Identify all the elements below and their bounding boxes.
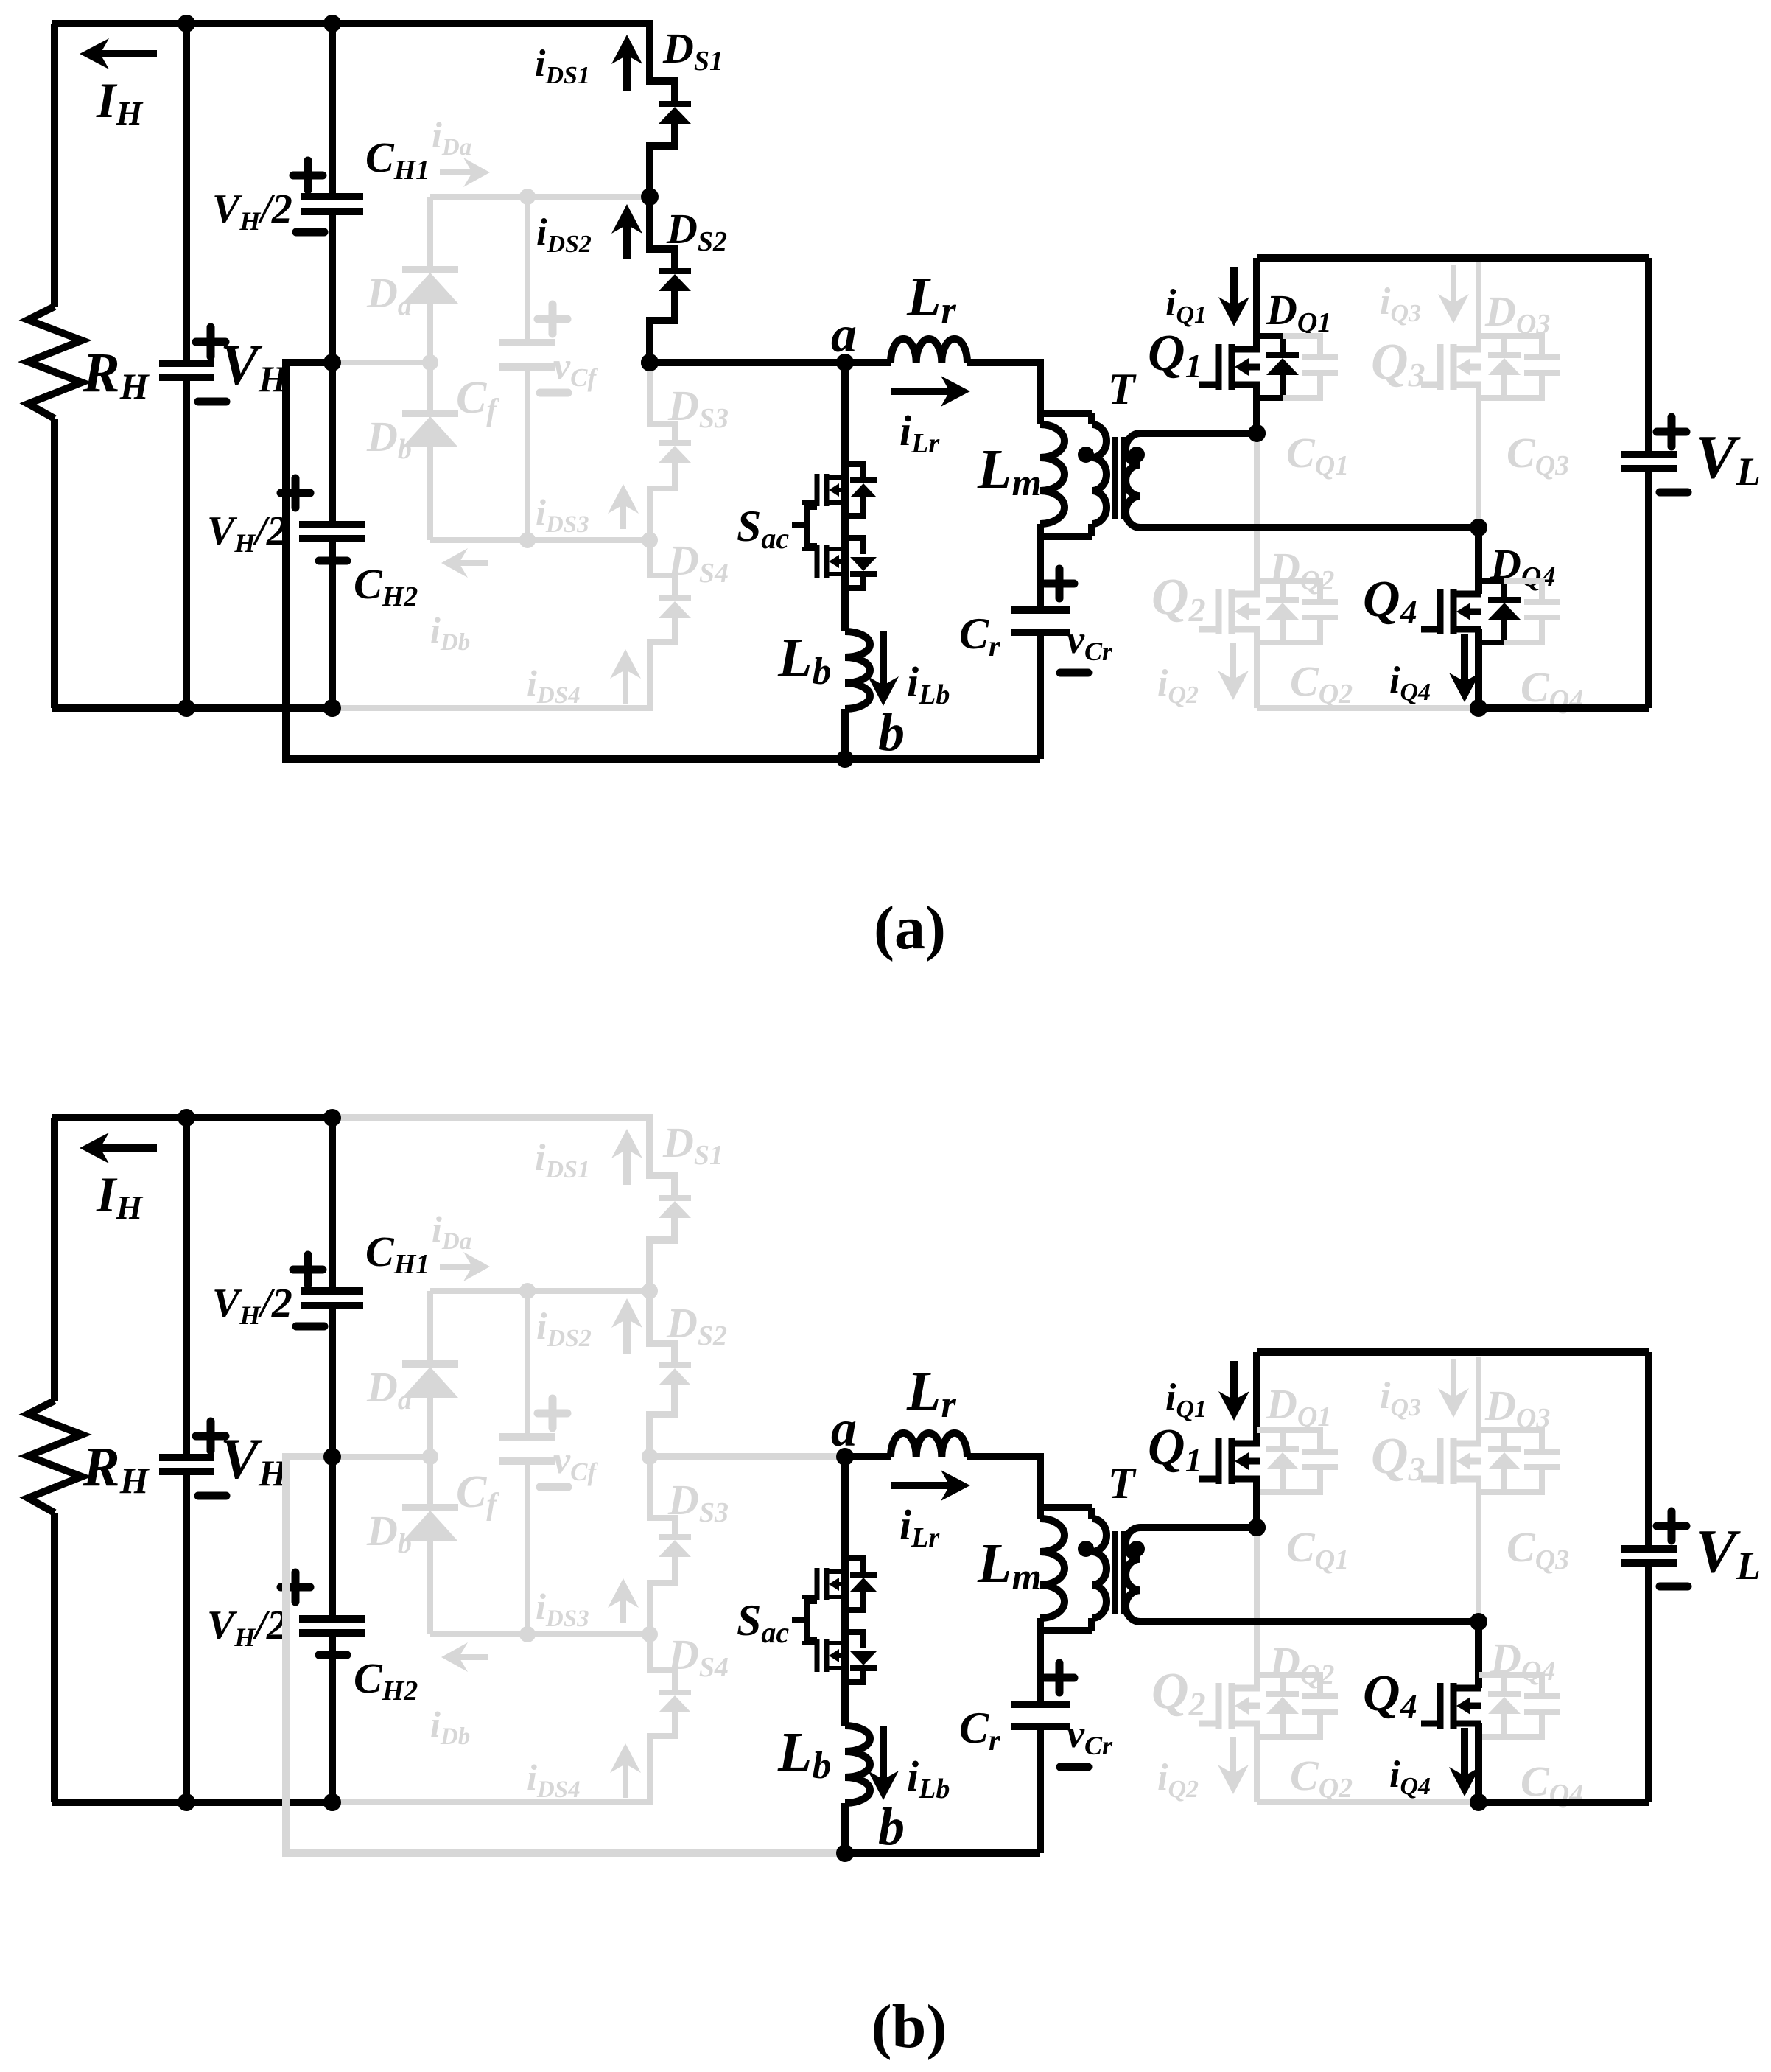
transformer T secondary winding	[1126, 433, 1140, 528]
wire: bottom rail	[52, 1799, 334, 1806]
diode D_S3	[659, 440, 691, 446]
diode D_a leg	[427, 197, 433, 266]
arrow i_Q3	[1451, 1359, 1456, 1397]
transistor Q3	[1437, 344, 1444, 390]
wire: Q2 drain	[1254, 1527, 1260, 1688]
wire: V_H branch lower	[183, 377, 190, 708]
arrow i_Q4	[1461, 634, 1468, 682]
capacitor C_f leg lower	[525, 367, 530, 540]
diode D_Q4	[1479, 1675, 1504, 1691]
node: bottom rail / V_H	[178, 699, 195, 717]
arrow i_DS2	[623, 1319, 631, 1354]
wire: node a to L_r	[845, 1453, 891, 1460]
wire: V_H branch upper	[183, 1118, 190, 1457]
capacitor C_f leg upper	[525, 1291, 530, 1437]
wire: S_ac internal	[841, 467, 849, 588]
node: D_S2/D_S3 junction (top)	[642, 1449, 658, 1465]
arrow i_DS3	[620, 505, 626, 529]
transistor Q2	[1216, 1683, 1222, 1729]
diode D_S4	[659, 1690, 691, 1695]
node: Q3/Q4 midpoint	[1470, 1613, 1487, 1631]
arrow I_H	[100, 1144, 157, 1152]
arrow i_Lb	[880, 631, 887, 685]
wire: V_H branch upper	[183, 24, 190, 363]
wire: D_S2 to node a	[650, 359, 845, 366]
capacitor C_Q2	[1283, 581, 1320, 599]
wire: top rail	[52, 1114, 334, 1121]
wire: L_m bottom tie	[1040, 1627, 1092, 1634]
wire: Q1 drain	[1253, 258, 1260, 349]
node: top rail / V_H	[178, 15, 195, 32]
wire: outer left vertical (bottom)	[51, 419, 58, 708]
node a	[836, 1448, 854, 1466]
wire: gray mid line V_H node to D_a/D_b junction	[332, 1454, 430, 1460]
wire: S_ac to L_b	[841, 1682, 849, 1726]
diode D_S2	[659, 268, 691, 274]
diode D_a	[402, 1360, 458, 1368]
arrow i_Q2	[1230, 1737, 1236, 1774]
transformer polarity dot (primary)	[1078, 447, 1094, 463]
node: Q1/Q2 midpoint (over)	[1248, 424, 1266, 442]
wire: gray bottom rail Q2 to Q4	[1257, 705, 1479, 711]
diode D_S4 leg	[650, 540, 675, 597]
diode D_S2	[659, 1362, 691, 1368]
node: bottom rail / C_H2	[323, 699, 341, 717]
diode D_S3 leg	[650, 1457, 675, 1536]
diode D_S1	[659, 101, 691, 107]
wire: V_L branch upper	[1645, 258, 1652, 455]
wire: Q4 drain	[1475, 528, 1482, 594]
svg-text:b: b	[878, 1797, 905, 1856]
transformer polarity dot (secondary)	[1129, 447, 1145, 463]
wire: C_r branch lower	[1037, 1726, 1044, 1853]
wire: Q1 source	[1253, 1479, 1260, 1527]
diode D_S1 leg	[650, 1118, 675, 1197]
wire: V_L branch upper	[1645, 1352, 1652, 1549]
switch S_ac (bidirectional)	[815, 1568, 820, 1600]
inductor L_m	[1037, 1508, 1044, 1519]
svg-text:a: a	[831, 1401, 857, 1457]
capacitor C_f	[499, 1437, 555, 1461]
wire: V_H midpoint to node b	[286, 1457, 845, 1853]
arrow i_Db	[459, 560, 488, 566]
wire: V_L branch lower	[1645, 469, 1652, 708]
node: D_S1/D_S2 junction	[642, 1283, 658, 1299]
wire: secondary bottom to Q3/Q4 midpoint	[1140, 1618, 1479, 1625]
transistor Q3	[1437, 1438, 1444, 1484]
capacitor C_Q4	[1504, 1675, 1542, 1693]
diode D_a	[402, 266, 458, 273]
transistor Q4	[1437, 589, 1444, 634]
arrow i_Lb	[880, 1726, 887, 1779]
wire: S_ac to L_b	[841, 588, 849, 631]
wire: V_H midpoint to node b	[286, 363, 845, 759]
wire: C_H1 to mid node	[329, 211, 336, 525]
diode D_S1	[659, 1195, 691, 1201]
wire: gray bottom rail segment	[332, 1799, 653, 1805]
svg-text:T: T	[1108, 365, 1137, 413]
diode D_Q1	[1257, 1430, 1283, 1446]
wire: secondary bottom (over crossing)	[1140, 1618, 1479, 1625]
wire: Q3 source	[1476, 1479, 1481, 1622]
svg-text:(b): (b)	[872, 1992, 947, 2061]
arrow i_DS3	[620, 1599, 626, 1623]
node: C_f bottom	[519, 532, 536, 548]
node: Q3/Q4 midpoint	[1470, 519, 1487, 536]
capacitor C_H2	[299, 525, 365, 539]
battery V_L	[1621, 455, 1677, 469]
inductor L_b	[845, 631, 870, 709]
node: D_S2/D_S3 junction	[642, 1449, 658, 1465]
arrow i_DS1	[623, 55, 631, 91]
node: C_f top	[519, 1283, 536, 1299]
diode D_Q2	[1257, 1675, 1283, 1691]
diode D_Q1	[1257, 336, 1283, 352]
node a	[836, 354, 854, 371]
transformer T secondary winding	[1126, 1527, 1140, 1622]
transformer T primary winding	[1088, 1508, 1095, 1519]
node: Q1/Q2 midpoint	[1248, 1519, 1266, 1536]
node: bottom rail / V_H	[178, 1793, 195, 1811]
svg-text:(a): (a)	[874, 894, 946, 962]
wire: gray top line	[430, 194, 653, 200]
node: C_f top	[519, 189, 536, 205]
diode D_S4 leg	[650, 1634, 675, 1691]
capacitor C_f	[499, 343, 555, 367]
battery V_H	[159, 1457, 214, 1471]
capacitor C_r	[1011, 1704, 1070, 1726]
wire: black bottom rail to V_L	[1479, 1799, 1649, 1806]
diode D_Q3	[1479, 1430, 1504, 1446]
capacitor C_H1	[301, 1291, 363, 1306]
wire: D_S2 to node a	[650, 1453, 845, 1460]
transformer T core	[1112, 437, 1118, 519]
switch S_ac gate box	[807, 507, 817, 546]
arrow i_DS4	[623, 670, 628, 704]
node: D_S3/D_S4 junction	[642, 532, 658, 548]
capacitor C_H1	[301, 197, 363, 211]
arrow i_Q2	[1230, 643, 1236, 679]
arrow i_Da	[440, 169, 472, 175]
node: top rail / C_H1	[323, 15, 341, 32]
wire: gray mid line V_H node to D_a/D_b junction	[332, 360, 430, 365]
diode D_Q4	[1479, 581, 1504, 597]
diode D_S3 leg	[650, 363, 675, 441]
transformer polarity dot (primary)	[1078, 1541, 1094, 1557]
arrow i_Da	[440, 1264, 472, 1270]
node: Q1/Q2 midpoint (over)	[1248, 1519, 1266, 1536]
wire: L_r to L_m branch	[967, 1457, 1040, 1508]
svg-text:T: T	[1108, 1459, 1137, 1508]
node: D_S1/D_S2 junction	[641, 188, 659, 206]
capacitor C_f leg upper	[525, 197, 530, 343]
wire: right top rail	[1257, 254, 1649, 262]
switch S_ac (bidirectional)	[815, 474, 820, 506]
wire: node b to C_r branch	[845, 1849, 1040, 1857]
wire: C_r branch upper	[1037, 536, 1044, 610]
node: D_S2/D_S3 junction	[641, 354, 659, 371]
wire: Q1 drain	[1253, 1352, 1260, 1443]
arrow i_Db	[459, 1654, 488, 1660]
capacitor C_Q3	[1504, 1430, 1542, 1449]
arrow i_Q1	[1230, 267, 1238, 306]
wire: Q3 source	[1476, 385, 1481, 528]
wire: secondary bottom (over crossing)	[1140, 524, 1479, 531]
wire: gray bottom line	[430, 1631, 653, 1637]
resistor R_H	[28, 1401, 82, 1513]
wire: top rail	[52, 20, 334, 27]
wire: right top rail	[1257, 1348, 1649, 1356]
inductor L_b	[845, 1726, 870, 1803]
transistor Q1	[1216, 344, 1222, 390]
node: bottom rail / C_H2 (over)	[323, 1793, 341, 1811]
wire: C_H1 branch upper	[329, 24, 336, 197]
wire: bottom rail	[52, 704, 334, 712]
wire: Q3 drain	[1476, 1357, 1481, 1443]
wire: L_m bottom tie	[1040, 533, 1092, 540]
capacitor C_Q1	[1283, 336, 1320, 354]
wire: gray bottom rail segment	[332, 705, 653, 711]
inductor L_r	[891, 1433, 967, 1457]
switch S_ac gate box	[807, 1601, 817, 1640]
diode D_S1 leg	[650, 24, 675, 102]
diode D_S2 leg	[650, 1291, 675, 1364]
transistor Q2	[1216, 589, 1222, 634]
diode D_b	[402, 1504, 458, 1511]
diode D_S3	[659, 1534, 691, 1540]
resistor R_H	[28, 307, 82, 419]
wire: C_H1 to mid node	[329, 1306, 336, 1619]
wire: top rail right segment (to D_S1)	[332, 20, 653, 27]
node: V_H midpoint	[323, 1448, 341, 1466]
wire: L_b to node b	[841, 709, 849, 759]
wire: Q2 source	[1254, 1723, 1260, 1802]
diode D_b	[402, 410, 458, 417]
switch S_ac lower mosfet	[802, 545, 848, 578]
transistor Q4	[1437, 1683, 1444, 1729]
wire: L_m top tie	[1040, 410, 1092, 417]
inductor L_r	[891, 339, 967, 363]
arrow i_DS2	[623, 225, 631, 259]
wire: Q2 source	[1254, 629, 1260, 708]
wire: L_b to node b	[841, 1803, 849, 1853]
wire: node a to L_r	[845, 359, 891, 366]
wire: gray bottom rail Q2 to Q4	[1257, 1799, 1479, 1805]
arrow i_Lr	[891, 388, 950, 395]
wire: outer left vertical (top)	[51, 1118, 58, 1401]
battery V_H	[159, 363, 214, 377]
arrow i_DS1	[623, 1149, 631, 1185]
diode D_Q2	[1257, 581, 1283, 597]
diode D_b leg	[427, 1457, 433, 1504]
wire: Q4 drain	[1475, 1622, 1482, 1688]
diode D_a leg	[427, 1291, 433, 1360]
capacitor C_Q4	[1504, 581, 1542, 599]
arrow i_DS4	[623, 1764, 628, 1798]
wire: black bottom rail to V_L	[1479, 704, 1649, 712]
battery V_L	[1621, 1549, 1677, 1563]
wire: outer left vertical (bottom)	[51, 1513, 58, 1802]
arrow i_Q4	[1461, 1728, 1468, 1776]
node: D_S3/D_S4 junction	[642, 1626, 658, 1642]
wire: node a down to S_ac	[841, 363, 849, 467]
node: V_H midpoint	[323, 354, 341, 371]
wire: S_ac internal	[841, 1561, 849, 1682]
wire: Q4 source	[1475, 1723, 1482, 1802]
svg-text:a: a	[831, 307, 857, 363]
wire: node a down to S_ac	[841, 1457, 849, 1561]
wire: top rail right segment (to D_S1)	[332, 1114, 653, 1121]
node: D_a/D_b junction	[422, 354, 438, 371]
capacitor C_Q3	[1504, 336, 1542, 354]
wire: secondary bottom to Q3/Q4 midpoint	[1140, 524, 1479, 531]
diode D_Q3	[1479, 336, 1504, 352]
capacitor C_r	[1011, 610, 1070, 632]
wire: gray bottom line	[430, 537, 653, 543]
wire: Q1 source	[1253, 385, 1260, 433]
capacitor C_Q2	[1283, 1675, 1320, 1693]
node: top rail / V_H	[178, 1109, 195, 1127]
circuit (a): mode with D_S1/D_S2 conducting	[28, 15, 1761, 962]
wire: gray top line	[430, 1288, 653, 1294]
transistor Q1	[1216, 1438, 1222, 1484]
diode D_S4	[659, 595, 691, 601]
wire: C_H1 branch upper	[329, 1118, 336, 1291]
wire: C_H2 to bottom rail	[329, 1633, 336, 1802]
wire: node b to C_r branch	[845, 755, 1040, 763]
wire: Q4 source	[1475, 629, 1482, 708]
wire: Q3 drain	[1476, 262, 1481, 349]
node: D_S2/D_S3 junction (top)	[641, 354, 659, 371]
capacitor C_f leg lower	[525, 1461, 530, 1634]
capacitor C_H2	[299, 1619, 365, 1633]
wire: L_r to L_m branch	[967, 363, 1040, 413]
diode D_b leg	[427, 363, 433, 410]
transformer polarity dot (secondary)	[1129, 1541, 1145, 1557]
node: bottom rail / C_H2	[323, 1793, 341, 1811]
node b	[836, 750, 854, 768]
arrow i_Q1	[1230, 1361, 1238, 1400]
node: C_f bottom	[519, 1626, 536, 1642]
wire: L_m top tie	[1040, 1504, 1092, 1511]
node: bottom rail / C_H2 (over)	[323, 699, 341, 717]
inductor L_m	[1037, 413, 1044, 424]
wire: Q2 drain	[1254, 433, 1260, 594]
switch S_ac lower mosfet	[802, 1639, 848, 1672]
svg-text:b: b	[878, 703, 905, 762]
arrow I_H	[100, 50, 157, 57]
capacitor C_Q1	[1283, 1430, 1320, 1449]
transformer T primary winding	[1088, 413, 1095, 424]
wire: secondary top to Q1/Q2 midpoint	[1140, 1524, 1257, 1531]
node: Q1/Q2 midpoint	[1248, 424, 1266, 442]
transformer T core	[1112, 1531, 1118, 1614]
wire: V_H branch lower	[183, 1471, 190, 1802]
circuit (b): mode with switching bridge idle	[28, 1109, 1761, 2061]
wire: C_r branch upper	[1037, 1631, 1044, 1704]
diode D_S2 leg	[650, 197, 675, 270]
arrow i_Lr	[891, 1482, 950, 1489]
node: Q4 source / bottom rail	[1470, 699, 1487, 717]
node: Q4 source / bottom rail	[1470, 1793, 1487, 1811]
wire: secondary top to Q1/Q2 midpoint	[1140, 430, 1257, 437]
node: D_a/D_b junction	[422, 1449, 438, 1465]
wire: V_L branch lower	[1645, 1563, 1652, 1802]
node: top rail / C_H1	[323, 1109, 341, 1127]
wire: C_r branch lower	[1037, 632, 1044, 759]
wire: C_H2 to bottom rail	[329, 539, 336, 708]
node b	[836, 1844, 854, 1862]
arrow i_Q3	[1451, 265, 1456, 303]
wire: outer left vertical (top)	[51, 24, 58, 307]
